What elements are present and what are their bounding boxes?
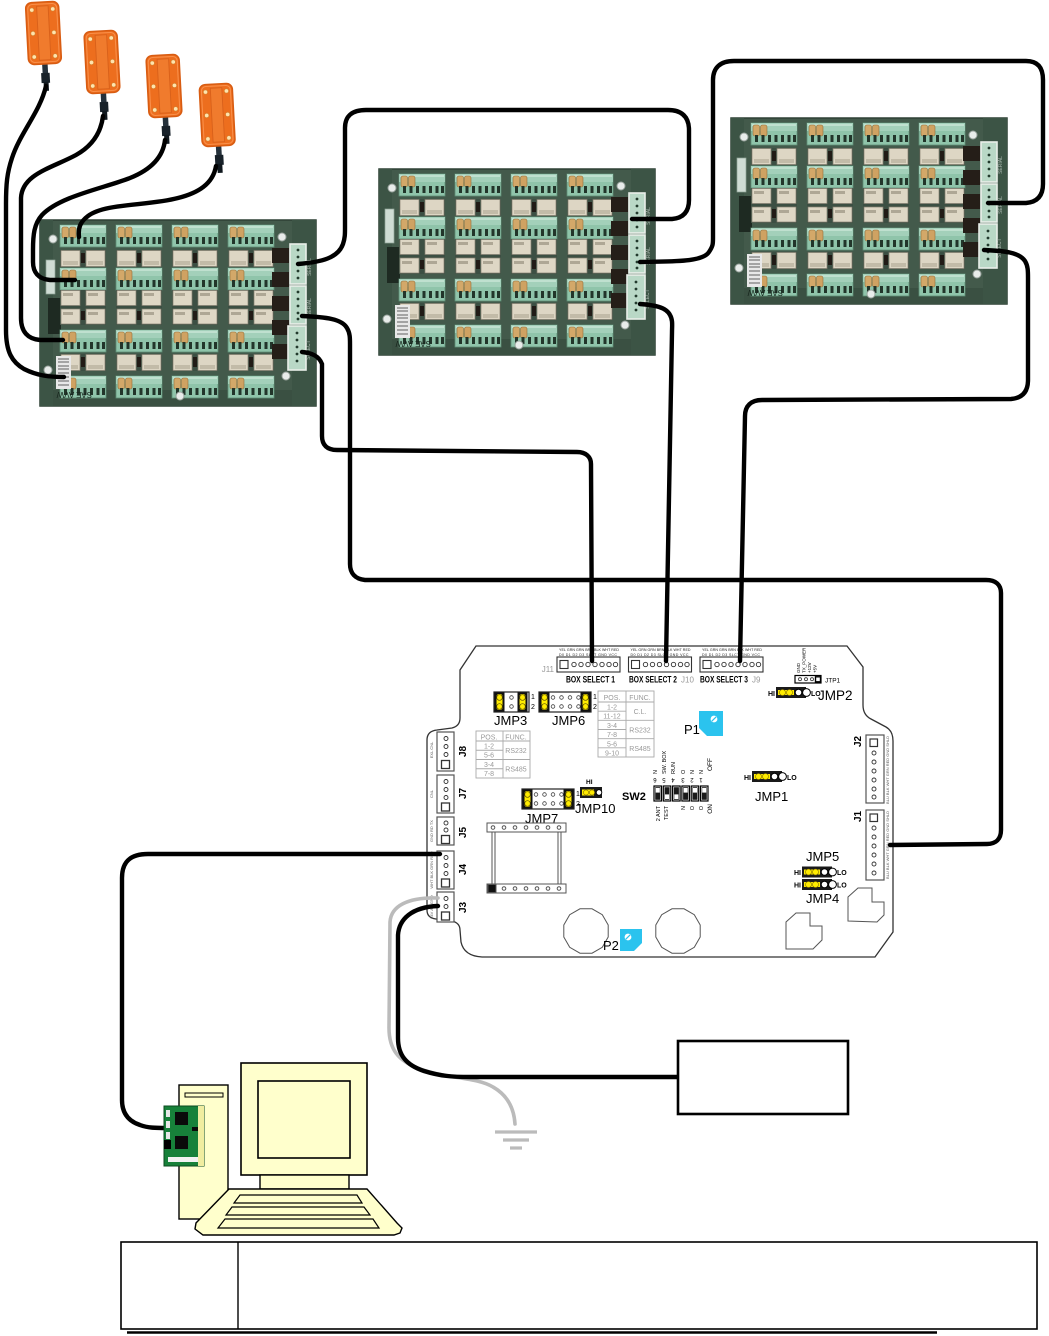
wire controller J3 ground lead gray <box>389 898 515 1124</box>
svg-text:RS485: RS485 <box>629 746 651 753</box>
power supply box <box>678 1041 848 1114</box>
svg-text:BOX SELECT 3: BOX SELECT 3 <box>700 675 748 685</box>
wire board2 serial to board3 serial <box>640 61 1043 262</box>
svg-text:J3: J3 <box>458 901 469 913</box>
svg-text:JTP1: JTP1 <box>825 678 841 685</box>
svg-text:J4: J4 <box>458 863 469 875</box>
svg-text:N: N <box>690 770 696 774</box>
svg-text:7-8: 7-8 <box>484 771 494 778</box>
svg-text:JMP6: JMP6 <box>552 713 585 728</box>
wire sensor S3 to board1 row2 <box>33 140 165 280</box>
svg-text:1: 1 <box>576 791 580 798</box>
svg-text:N: N <box>699 770 705 774</box>
svg-text:TEST: TEST <box>664 805 670 820</box>
svg-text:TX_POWER: TX_POWER <box>802 647 807 673</box>
svg-text:D0 D1 D2 D3 SLCT GND VCC: D0 D1 D2 D3 SLCT GND VCC <box>559 653 617 657</box>
svg-text:7-8: 7-8 <box>607 732 617 739</box>
connector J2 <box>853 735 890 804</box>
jumper JMP10 <box>575 779 615 816</box>
wire sensor S4 to board1 row1 <box>79 166 216 237</box>
svg-text:N: N <box>653 770 659 774</box>
svg-text:YEL GRN GRN BRN BLK WHT RED: YEL GRN GRN BRN BLK WHT RED <box>559 648 619 652</box>
svg-text:SW2: SW2 <box>622 791 646 803</box>
connector J5 <box>429 817 469 845</box>
wire board1 select to BOX SELECT 1 <box>302 352 592 661</box>
svg-text:LO: LO <box>837 883 847 890</box>
svg-text:J8: J8 <box>458 745 469 757</box>
svg-text:11-12: 11-12 <box>603 714 620 721</box>
ground symbol <box>495 1132 537 1148</box>
connector J1 <box>853 810 890 880</box>
svg-text:N: N <box>681 806 687 810</box>
sensor S2 <box>84 30 122 121</box>
svg-text:JMP3: JMP3 <box>494 713 527 728</box>
svg-text:J9: J9 <box>752 676 761 685</box>
svg-text:+5V: +5V <box>813 665 818 673</box>
connector J11 BOX SELECT 1 <box>557 657 620 672</box>
computer monitor <box>241 1063 367 1189</box>
wire board3 select to BOX SELECT 3 <box>740 250 1028 661</box>
svg-text:3-4: 3-4 <box>607 723 617 730</box>
wire sensor S1 to board1 row4 <box>6 86 64 377</box>
computer tower <box>179 1085 228 1219</box>
svg-text:OFF: OFF <box>707 758 714 771</box>
connector J9 BOX SELECT 3 <box>700 657 763 672</box>
svg-text:1-2: 1-2 <box>607 705 617 712</box>
svg-text:BOX SELECT 1: BOX SELECT 1 <box>566 675 615 685</box>
relay board 3 <box>731 118 1007 304</box>
svg-text:+12V: +12V <box>807 662 812 673</box>
svg-text:EXL CNL: EXL CNL <box>429 741 434 758</box>
svg-text:LO: LO <box>837 870 847 877</box>
svg-text:HI: HI <box>768 691 775 698</box>
svg-text:GND RD TX: GND RD TX <box>429 820 434 842</box>
svg-text:JMP4: JMP4 <box>806 891 839 906</box>
svg-text:HI: HI <box>744 775 751 782</box>
computer keyboard <box>195 1189 402 1235</box>
svg-text:RUN: RUN <box>671 762 677 774</box>
svg-text:CNL: CNL <box>429 789 434 798</box>
svg-text:2: 2 <box>531 704 535 711</box>
connector J8 <box>429 732 469 771</box>
interface card <box>164 1106 204 1166</box>
svg-text:2: 2 <box>593 704 597 711</box>
sensor S1 <box>25 1 63 92</box>
svg-text:JMP5: JMP5 <box>806 849 839 864</box>
connector J3 <box>429 892 469 922</box>
svg-text:HI: HI <box>586 779 593 786</box>
svg-text:J1: J1 <box>853 810 864 822</box>
svg-text:J2: J2 <box>853 735 864 747</box>
table JMP3 functions <box>476 731 530 778</box>
svg-text:5-6: 5-6 <box>607 742 617 749</box>
svg-text:9-10: 9-10 <box>605 751 619 758</box>
board cutout A <box>786 913 822 949</box>
svg-text:YEL GRN GRN BRN BLK WHT RED: YEL GRN GRN BRN BLK WHT RED <box>702 648 762 652</box>
svg-text:J11: J11 <box>542 665 555 674</box>
sensor S4 <box>199 83 237 174</box>
wire board1 serial2 to J1 <box>302 316 1001 845</box>
wire sensor S2 to board1 row3 <box>21 116 103 340</box>
wire board2 select to BOX SELECT 2 <box>640 304 672 661</box>
legend table <box>121 1242 1037 1329</box>
sensor S3 <box>146 54 184 145</box>
svg-text:FUNC.: FUNC. <box>629 695 650 702</box>
connector JTP1 <box>795 647 841 685</box>
svg-text:ON: ON <box>707 804 714 814</box>
relay board 2 <box>379 169 655 355</box>
speaker footprint right <box>656 909 700 953</box>
svg-text:2: 2 <box>576 801 580 808</box>
svg-text:JMP2: JMP2 <box>818 688 853 703</box>
svg-text:POS.: POS. <box>481 735 498 742</box>
svg-text:POS.: POS. <box>604 695 621 702</box>
speaker footprint left <box>564 909 608 953</box>
svg-text:D0 D1 D2 D3 SLCT GND VCC: D0 D1 D2 D3 SLCT GND VCC <box>631 653 689 657</box>
jumper block JMP3 <box>494 692 535 728</box>
svg-text:1: 1 <box>593 694 597 701</box>
relay board 1 <box>40 220 316 406</box>
jumper JMP4 <box>794 879 847 890</box>
footer rule <box>127 1331 937 1334</box>
svg-text:C.L.: C.L. <box>634 709 647 716</box>
svg-text:HI: HI <box>794 883 801 890</box>
svg-text:5-6: 5-6 <box>484 753 494 760</box>
svg-text:D0 D1 D2 D3 SLCT GND VCC: D0 D1 D2 D3 SLCT GND VCC <box>702 653 760 657</box>
svg-text:SW. BOX: SW. BOX <box>662 750 668 774</box>
svg-text:O: O <box>699 805 705 810</box>
svg-text:LO: LO <box>787 775 797 782</box>
connector J4 <box>429 851 469 889</box>
svg-text:BLU BLK WHT GRN RED GND SHLD: BLU BLK WHT GRN RED GND SHLD <box>885 736 890 804</box>
connector J10 BOX SELECT 2 <box>629 657 692 672</box>
jumper block JMP6 <box>539 692 597 728</box>
wire board1 serial to board2 serial <box>298 110 689 264</box>
svg-text:JMP7: JMP7 <box>525 811 558 826</box>
table JMP6 functions <box>598 691 654 757</box>
svg-text:P1: P1 <box>684 722 700 737</box>
svg-text:BOX SELECT 2: BOX SELECT 2 <box>629 675 677 685</box>
jumper JMP1 <box>744 771 797 804</box>
svg-text:1-2: 1-2 <box>484 744 494 751</box>
svg-text:HI: HI <box>794 870 801 877</box>
svg-text:3-4: 3-4 <box>484 762 494 769</box>
svg-text:J10: J10 <box>681 676 694 685</box>
svg-text:O: O <box>681 769 687 774</box>
wire controller J3 to power box <box>398 906 678 1077</box>
svg-text:1: 1 <box>531 694 535 701</box>
jumper block JMP7 <box>522 789 580 826</box>
svg-text:FUNC.: FUNC. <box>505 735 526 742</box>
wire controller J4 to computer card <box>122 854 440 1128</box>
svg-text:J7: J7 <box>458 787 469 799</box>
board cutout B <box>848 888 884 922</box>
jumper JMP2 <box>768 687 853 703</box>
connector J7 <box>429 775 469 813</box>
svg-text:P2: P2 <box>603 938 619 953</box>
svg-text:RS232: RS232 <box>505 748 527 755</box>
svg-text:JMP10: JMP10 <box>575 801 615 816</box>
controller board outline <box>427 646 893 957</box>
svg-text:J5: J5 <box>458 826 469 838</box>
svg-text:GND: GND <box>796 662 801 673</box>
transformer footprint <box>487 823 566 893</box>
svg-text:RS232: RS232 <box>629 728 651 735</box>
svg-text:YEL GRN GRN BRN BLK WHT RED: YEL GRN GRN BRN BLK WHT RED <box>631 648 691 652</box>
svg-text:RS485: RS485 <box>505 767 527 774</box>
svg-text:WHT BLK GRN RED: WHT BLK GRN RED <box>429 851 434 888</box>
svg-text:JMP1: JMP1 <box>755 789 788 804</box>
svg-text:2 ANT: 2 ANT <box>656 805 662 821</box>
svg-text:O: O <box>690 805 696 810</box>
